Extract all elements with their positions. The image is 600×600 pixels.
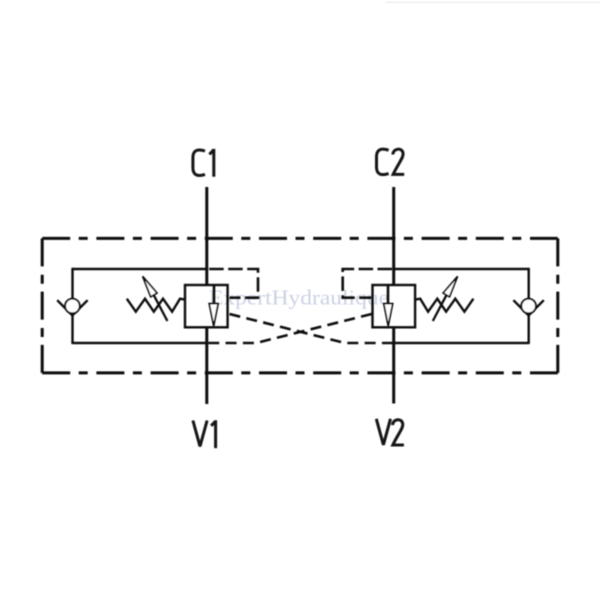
wire right loop right edge upper (528, 268, 530, 299)
counterbalance valve right: flow arrow shaft (387, 285, 390, 304)
wire right loop right edge lower (528, 315, 530, 344)
pilot line from left valve to V2 (dashed) (230, 314, 394, 343)
valve body envelope right edge (dash-dot) (556, 238, 559, 373)
counterbalance valve left: flow arrow head (209, 304, 218, 326)
wire left loop top edge (73, 268, 209, 270)
check valve left: ball (65, 299, 80, 314)
counterbalance valve right: body square (373, 285, 416, 327)
check valve right: seat (513, 300, 543, 315)
wire left loop left edge upper (71, 268, 73, 299)
wire right loop bottom edge (393, 342, 529, 344)
port label V1 (193, 420, 216, 448)
wire C1 line (205, 187, 208, 285)
valve body envelope bottom edge (dash-dot) (42, 371, 558, 374)
port label C2 (377, 149, 405, 175)
wire right loop top edge (393, 268, 529, 270)
check valve left: seat (57, 300, 87, 315)
adjustment arrow right: shaft (433, 295, 447, 321)
counterbalance valve left: flow arrow shaft (213, 285, 216, 304)
check valve right: ball (521, 299, 536, 314)
port label C1 (193, 149, 214, 177)
pilot dashed loop left (209, 269, 258, 298)
wire left loop left edge lower (71, 315, 73, 344)
adjustment arrow right: head (443, 276, 457, 297)
counterbalance valve right: flow arrow head (384, 304, 393, 326)
pilot line from right valve to V1 (dashed) (208, 314, 372, 343)
pilot dashed loop right (343, 269, 392, 298)
wire left loop bottom edge (73, 342, 209, 344)
valve body envelope top edge (dash-dot) (42, 237, 558, 240)
counterbalance valve left: body square (185, 285, 228, 327)
valve body envelope left edge (dash-dot) (41, 238, 44, 373)
wire V2 line (392, 327, 395, 404)
port label V2 (376, 419, 404, 445)
wire C2 line (392, 187, 395, 285)
adjustment arrow left: shaft (154, 295, 168, 321)
faint artifact line top (386, 2, 600, 4)
wire V1 line (205, 327, 208, 404)
spring left (127, 299, 185, 312)
spring right (415, 299, 473, 312)
adjustment arrow left: head (143, 276, 157, 297)
